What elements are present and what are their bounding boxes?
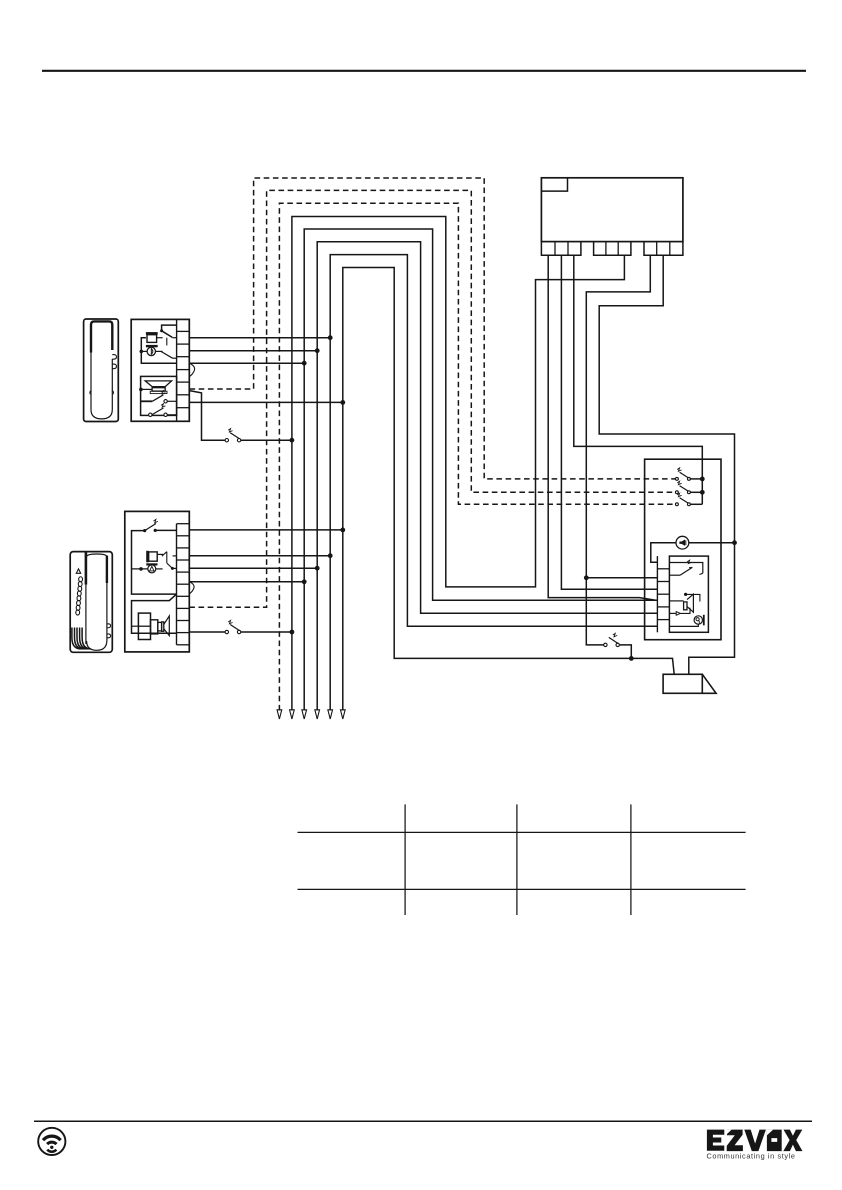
node switch 1 to supply line xyxy=(700,477,705,482)
node xyxy=(290,630,295,635)
interphone 2 speaker grille xyxy=(72,628,81,649)
interphone 1 rim tick left xyxy=(90,390,92,394)
node xyxy=(340,528,345,533)
wire bus 3 (riser line 3 to speaker unit terminal 5) xyxy=(317,242,657,711)
table grid horizontal line 1 xyxy=(298,831,746,833)
speaker unit terminal strip xyxy=(656,556,658,632)
ELVOX logo xyxy=(707,1130,803,1152)
power supply U1 box xyxy=(541,178,683,242)
node PS net at terminal 2 branch xyxy=(584,575,589,580)
switch interphone 1 door-lock button xyxy=(225,439,228,442)
wire interphone 2 door-lock button to bus 1 xyxy=(189,631,225,633)
interphone 1 rim tick right xyxy=(112,390,114,394)
interphone 1 internal rail xyxy=(141,338,176,364)
wire bus 4 (riser line 4 to speaker unit terminal 6) xyxy=(330,255,657,711)
speaker unit lock contact xyxy=(694,616,702,624)
interphone 1 terminal strip xyxy=(176,319,178,421)
wire bus D1 (dashed riser, interphone 1 to entrance switch 1) xyxy=(190,178,676,479)
wire PS terminal 3-2 to right riser and lock xyxy=(599,255,734,674)
table grid horizontal line 2 xyxy=(298,888,746,890)
wire interphone 2 terminal 4 to bus 3 xyxy=(189,567,317,569)
interphone 2 body xyxy=(70,552,112,653)
entrance call button switch 2 xyxy=(675,491,678,494)
power supply U1 terminal block group 1 xyxy=(541,242,581,256)
interphone 2 terminal strip xyxy=(176,524,178,645)
interphone 2 buzzer xyxy=(146,551,149,563)
wire interphone 1 terminal 7 to bus 5 xyxy=(189,401,342,403)
arrowhead bus D3 xyxy=(277,710,282,719)
interphone 2 hook switch xyxy=(155,529,176,531)
wire PS terminal 3-1 to speaker unit terminal 2 and lock switch xyxy=(586,255,650,645)
interphone 2 hook bump 1 xyxy=(107,624,110,628)
speaker unit internal switch xyxy=(669,563,702,574)
interphone 1 handset body xyxy=(84,319,119,422)
interphone 2 loudspeaker section box xyxy=(132,594,177,633)
lock release manual switch xyxy=(586,644,603,646)
wire interphone 2 terminal 5 to bus 2 xyxy=(189,581,304,583)
wire PS terminal 1-3 to entrance switch column xyxy=(574,255,703,504)
power supply U1 corner tab xyxy=(541,178,567,191)
interphone 2 button column triangle xyxy=(76,569,80,573)
node xyxy=(302,579,307,584)
wire interphone 1 terminal 2 to bus 4 xyxy=(189,337,330,339)
switch interphone 2 door-lock button xyxy=(225,630,228,633)
node lock wire junction xyxy=(629,656,634,661)
wire PS terminal 1-1 to speaker unit terminal 4 (with jog) xyxy=(548,255,656,600)
arrowhead bus 1 xyxy=(290,710,295,719)
electric lock symbol xyxy=(663,674,702,693)
entrance panel box xyxy=(645,459,721,640)
entrance call button switch 3 xyxy=(675,503,678,506)
node xyxy=(302,361,307,366)
interphone 1 loudspeaker xyxy=(145,381,171,387)
interphone 1 hook bump 2 xyxy=(112,364,116,369)
table grid vertical line 2 xyxy=(516,804,518,915)
interphone 1 hook bump 1 xyxy=(112,355,116,360)
entrance speaker amplifier circle xyxy=(676,536,689,549)
wire bus 1 (riser line 1: phones call-button net to power supply) xyxy=(292,217,625,711)
node xyxy=(315,348,320,353)
entrance call button switch 1 xyxy=(675,477,678,480)
node switch 2 to supply line xyxy=(700,490,705,495)
wire amplifier to speaker unit terminal 1 xyxy=(651,543,676,563)
interphone 2 hook bump 2 xyxy=(107,634,110,638)
arrowhead bus 5 xyxy=(340,710,345,719)
interphone 1 earpiece xyxy=(146,345,158,347)
arrowhead bus 4 xyxy=(328,710,333,719)
interphone 2 handset outline xyxy=(85,552,88,585)
interphone 1 terminal strip lead-off bracket xyxy=(189,363,194,376)
wire interphone 1 terminal 4 to bus 2 xyxy=(189,362,304,364)
wire PS terminal 1-2 to speaker unit terminal 3 xyxy=(561,255,657,589)
interphone 1 hook switch xyxy=(162,325,177,330)
speaker unit microphone lead xyxy=(669,612,676,614)
interphone 2 button column xyxy=(79,577,83,582)
interphone 1 schematic box xyxy=(131,319,189,421)
wire interphone 2 terminal 1 to bus 5 xyxy=(189,529,342,531)
interphone 1 loudspeaker section box xyxy=(141,376,177,415)
svg-text:Communicating in style: Communicating in style xyxy=(707,1152,796,1161)
table grid vertical line 1 xyxy=(404,804,406,915)
wire interphone 1 door-lock button to bus 1 xyxy=(190,391,226,441)
node xyxy=(315,566,320,571)
interphone 1 handset cradle outline xyxy=(91,321,112,352)
footer rule xyxy=(34,1120,812,1122)
footer sound-wave logo xyxy=(38,1128,65,1155)
node xyxy=(290,438,295,443)
wire bus 5 (riser line 5 to lock release node) xyxy=(343,268,674,711)
node xyxy=(340,400,345,405)
node xyxy=(328,335,333,340)
wire bus 2 (riser line 2 to speaker unit terminal 4) xyxy=(304,229,657,711)
interphone 2 terminal strip lead-off bracket xyxy=(189,582,194,594)
interphone 2 bell xyxy=(146,563,157,565)
wire interphone 2 terminal 3 to bus 4 xyxy=(189,555,330,557)
interphone 1 switch contact A xyxy=(141,400,153,402)
speaker unit inner box xyxy=(669,556,708,632)
wire interphone 1 terminal 3 to bus 3 xyxy=(189,350,317,352)
wire branch node to speaker unit terminal 2 xyxy=(586,577,657,579)
wire amplifier to right riser xyxy=(689,542,735,544)
arrowhead bus 3 xyxy=(315,710,320,719)
node amplifier to riser xyxy=(732,540,737,545)
interphone 2 schematic box xyxy=(125,511,190,652)
table grid vertical line 3 xyxy=(630,804,632,915)
interphone 1 switch contact B xyxy=(149,413,152,416)
node xyxy=(328,553,333,558)
interphone 1 buzzer xyxy=(146,332,158,335)
speaker unit loudspeaker xyxy=(669,600,683,602)
wire bus D3 (dashed riser to entrance switch 3, continues down to arrow) xyxy=(279,203,675,710)
interphone 2 loudspeaker xyxy=(138,613,150,639)
wire bus D2 (dashed riser, interphone 2 to entrance switch 2) xyxy=(189,190,675,607)
arrowhead bus 2 xyxy=(302,710,307,719)
header rule xyxy=(42,70,806,72)
